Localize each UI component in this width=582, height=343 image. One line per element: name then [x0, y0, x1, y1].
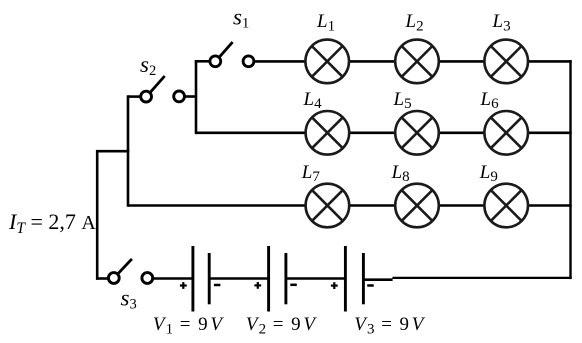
wire: stub to s1 left contact	[195, 60, 210, 63]
wire: battery 3 output stub	[363, 278, 392, 281]
wire: L8 to L9	[439, 204, 485, 207]
wire: bottom long return	[392, 277, 571, 279]
battery V2 negative plate	[284, 253, 287, 304]
wire: s2 branch vertical	[127, 95, 130, 207]
battery V2 positive plate	[267, 246, 270, 312]
wire: right vertical return	[569, 60, 571, 279]
svg-text:V1=9V: V1=9V	[153, 314, 225, 337]
battery V3 plus sign	[331, 282, 338, 289]
wire: L4 to L5	[349, 132, 395, 135]
wire: s2 right contact to mid vertical	[185, 95, 196, 98]
svg-text:L5: L5	[393, 89, 412, 112]
wire: row 3 horizontal to L7	[128, 204, 306, 207]
lamp L5	[395, 111, 439, 155]
svg-text:L4: L4	[303, 89, 323, 112]
wire: stub to s2 left contact	[128, 95, 140, 98]
wire: battery 1 to battery 2	[209, 277, 268, 280]
battery V1 plus sign	[180, 282, 187, 289]
wire: s1 right contact to L1	[254, 60, 305, 63]
lamp L4	[306, 111, 350, 155]
wire: left main vertical (I_T branch)	[96, 150, 99, 280]
svg-text:L7: L7	[301, 162, 321, 185]
svg-text:L3: L3	[492, 11, 511, 34]
lamp L8	[395, 184, 439, 228]
wire: L2 to L3	[439, 60, 485, 63]
lamp L9	[484, 184, 528, 228]
wire: left stub to s3	[96, 277, 108, 280]
wire: L1 to L2	[349, 60, 395, 63]
lamp L3	[484, 40, 528, 84]
lamp L2	[395, 40, 439, 84]
wire: s3 to battery 1	[153, 277, 193, 280]
wire: L9 to right vertical	[528, 204, 572, 207]
wire: L5 to L6	[439, 132, 485, 135]
lamp L6	[484, 111, 528, 155]
battery V3 minus sign	[367, 284, 374, 287]
switch s3	[108, 259, 152, 284]
battery V1 minus sign	[214, 284, 221, 287]
wire: L7 to L8	[349, 204, 395, 207]
wire: L6 to right vertical	[528, 132, 572, 135]
svg-text:IT = 2,7 A: IT = 2,7 A	[8, 209, 96, 237]
switch s1	[210, 42, 254, 67]
wire: branch horizontal at node	[96, 150, 129, 153]
battery V2 minus sign	[290, 284, 297, 287]
battery V2 plus sign	[254, 282, 261, 289]
wire: mid vertical (s1/row2 feed)	[195, 60, 198, 134]
svg-text:L2: L2	[405, 11, 424, 34]
svg-text:L8: L8	[391, 162, 410, 185]
svg-text:s2: s2	[140, 52, 156, 79]
svg-text:s3: s3	[121, 285, 137, 312]
battery V1 negative plate	[208, 253, 211, 304]
battery V3 positive plate	[344, 246, 347, 312]
battery V1 positive plate	[191, 246, 194, 312]
svg-text:L1: L1	[316, 11, 335, 34]
battery V3 negative plate	[362, 253, 365, 304]
svg-text:V2=9V: V2=9V	[246, 314, 318, 337]
svg-text:s1: s1	[233, 5, 249, 32]
svg-text:V3=9V: V3=9V	[354, 314, 426, 337]
wire: battery 2 to battery 3	[286, 277, 346, 280]
svg-text:L6: L6	[480, 89, 500, 112]
wire: L3 to right vertical	[528, 60, 572, 63]
wire: row 2 horizontal to L4	[196, 132, 306, 135]
lamp L1	[305, 40, 349, 84]
switch s2	[141, 76, 185, 102]
svg-text:L9: L9	[479, 162, 498, 185]
lamp L7	[306, 184, 350, 228]
